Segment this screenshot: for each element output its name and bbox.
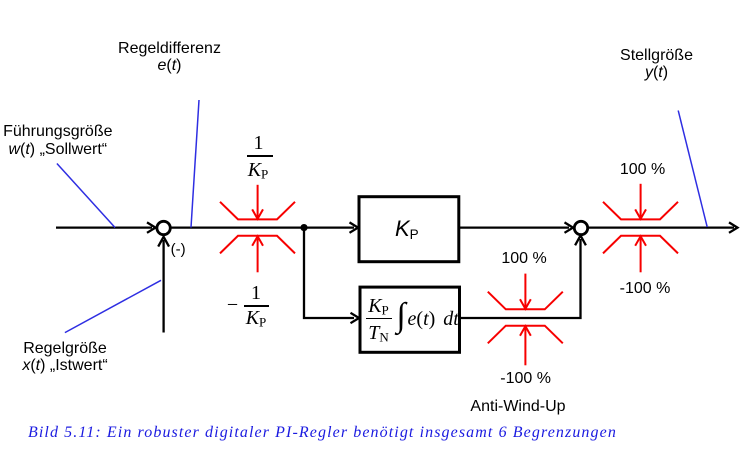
wire output y(t) [588,222,738,232]
value label fraction -1/KP lower [227,295,238,315]
wire blue leader x(t) [65,280,161,332]
limiter L2 (anti-windup) [488,274,563,366]
summing junction S1 [157,221,170,234]
limiter L1 (1/KP) [220,185,295,272]
node branch dot [300,224,307,231]
limiter L3 (output 100%) [603,184,678,272]
wire KP to S2 [460,222,573,232]
label 100% at L2 [501,250,546,267]
wire S1 to branch node [170,226,304,228]
block integrator [360,287,460,352]
value label fraction 1/KP upper [254,133,264,153]
wire blue leader e(t) [191,100,199,228]
wire integrator output up to S2 [461,236,586,319]
summing junction S2 [574,221,587,234]
wire feedback x(t) into S1 [158,237,169,333]
label 100% at L3 [620,161,665,178]
label Regeldifferenz e(t) [118,40,221,75]
wire blue leader y(t) [678,111,707,228]
label Stellgroesse y(t) [620,47,693,82]
value label integrator formula [368,296,389,321]
wire branch down to integrator [304,228,359,324]
label Fuehrungsgroesse w(t) Sollwert [3,123,112,158]
wire blue leader w(t) [57,164,115,228]
label Regelgroesse x(t) Istwert [22,340,107,375]
label -100% at L2 [500,370,551,387]
label Anti-Wind-Up [470,398,565,415]
caption Bild 5.11 [28,425,617,441]
label minus sign at S1 [171,242,186,257]
wire branch to KP block [304,222,358,232]
value label KP in block [395,218,419,246]
wire input w(t) [56,222,156,232]
block KP [359,197,459,262]
label -100% at L3 [620,280,671,297]
